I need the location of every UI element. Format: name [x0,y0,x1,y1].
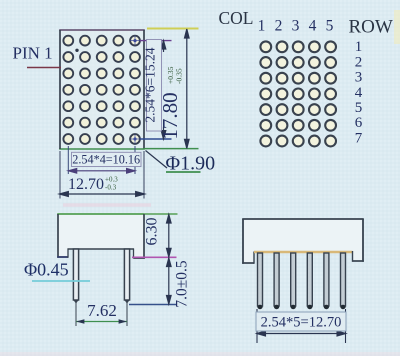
svg-text:7.0±0.5: 7.0±0.5 [174,260,191,308]
extension line below pin 6 [345,309,347,343]
boxed dimension text 2.54*5=12.70 [256,312,346,331]
dimension line 7.0±0.5 (vertical) [167,258,172,304]
svg-text:4: 4 [355,85,363,101]
dimension line 2.54*5=12.70 (horizontal) [257,331,346,336]
svg-text:6: 6 [355,115,363,131]
dimension line 12.70 (horizontal) [60,192,145,197]
svg-text:3: 3 [355,70,363,86]
right step [133,249,135,259]
front left step [253,252,255,264]
svg-text:1: 1 [258,18,266,35]
dimension text 12.70 +0.3/-0.3 [68,176,118,194]
front right foot bottom [353,260,364,262]
pin 3 [291,253,296,309]
front left foot bottom [242,262,254,264]
pin 2 [274,253,279,309]
svg-text:2.54*6=15.24: 2.54*6=15.24 [143,47,158,122]
pin 6 [340,253,345,309]
svg-text:Φ0.45: Φ0.45 [24,260,69,280]
extension line below left pin [75,303,77,326]
svg-text:7: 7 [355,130,363,146]
underline (green) of Φ1.90 [166,171,201,173]
recessed bottom edge [68,248,135,250]
svg-text:12.70: 12.70 [68,176,104,193]
front body left edge [242,219,244,264]
display body outline [59,30,145,149]
dimension line 2.54*4=10.16 (horizontal) [68,169,135,174]
svg-text:2: 2 [355,54,363,70]
extension line below left body corner [59,151,61,199]
datum crosshair bottom-right dot [130,134,140,144]
svg-text:PIN 1: PIN 1 [13,44,53,63]
front body right edge [362,219,364,262]
extension line (green) from body bottom edge [144,148,199,150]
svg-text:2: 2 [275,18,283,35]
side body fill [58,214,144,258]
standoff ledge (tan) [254,251,353,254]
column numbers 1-5 [258,18,334,35]
svg-text:3: 3 [292,18,300,35]
svg-text:5: 5 [326,18,334,35]
pin 4 [307,253,312,309]
boxed dimension text 2.54*4=10.16 [72,152,142,166]
extension stub below column 5 [134,146,136,174]
svg-text:2.54*5=12.70: 2.54*5=12.70 [261,315,342,331]
pin map 5x7 circle grid [260,41,336,146]
svg-text:4: 4 [309,18,317,35]
pin 1 [257,253,262,309]
dimension line 2.54*6=15.24 (vertical) [161,41,166,139]
svg-text:7.62: 7.62 [87,301,117,320]
side body top edge (green) [57,213,145,215]
extension line (green) body top right [145,213,178,215]
leader line for PIN 1 [27,67,61,69]
dimension line 17.80 (vertical) [185,29,190,148]
svg-text:1: 1 [355,39,363,55]
front body fill [243,219,363,263]
svg-text:-0.3: -0.3 [105,184,117,192]
svg-text:6.30: 6.30 [144,218,161,246]
right foot bottom [134,257,145,259]
dimension line 6.30 (vertical) [167,215,172,257]
svg-text:5: 5 [355,100,363,116]
boxed dimension text 2.54*6=15.24 [143,40,162,132]
left step [67,249,69,258]
extension line below right body corner [143,151,145,199]
pin 1 marker dot [75,49,78,52]
svg-text:+0.3: +0.3 [105,176,118,184]
extension line below right pin [126,303,128,326]
dimension text 17.80 +0.35/-0.35 (rotated) [158,66,184,139]
svg-text:2.54*4=10.16: 2.54*4=10.16 [72,153,140,167]
pin 5 [324,253,329,309]
extension line below pin 1 [256,309,258,343]
leader (cyan) of Φ0.45 [32,280,90,282]
svg-text:ROW: ROW [349,17,393,38]
side pin left [73,249,78,304]
front body top edge [242,218,364,220]
svg-text:17.80: 17.80 [158,92,182,139]
extension line (blue) pin bottom right [129,304,177,306]
side pin right [124,249,129,304]
side body right edge [143,214,145,259]
extension line (blue) from bottom-right dot [140,138,172,140]
side body left edge [57,214,59,258]
leader line for dot diameter [146,151,168,169]
front right step [352,251,354,262]
left foot bottom [57,256,68,258]
5x7 LED dot grid [63,36,140,144]
svg-text:COL: COL [219,8,254,28]
extension stub below column 1 [67,146,69,174]
datum crosshair top-right dot [130,36,140,46]
dimension line 7.62 (horizontal) [76,319,127,324]
extension line (yellow) from body top edge [147,28,199,30]
svg-text:-0.35: -0.35 [175,68,184,84]
scan artifact pink band [63,203,151,207]
extension line (purple) from top-right dot [140,40,172,42]
extension line (magenta) body bottom right [132,256,177,258]
row numbers 1-7 [355,39,363,146]
